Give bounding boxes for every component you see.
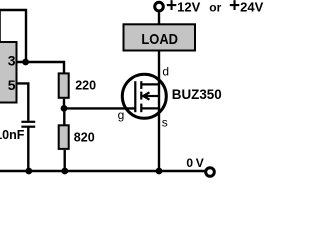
Q1 source stub (141, 107, 159, 109)
wire C1 to rail (27, 127, 29, 171)
Q1 drain stub (141, 83, 159, 85)
wire gate (64, 107, 136, 109)
terminal +V supply (155, 2, 164, 11)
IC U1 (partial, pins 3 and 5) (0, 42, 17, 103)
wire R2 bottom to rail (63, 150, 65, 171)
svg-text:or: or (209, 1, 221, 15)
wire feedback from top-left (0, 10, 26, 62)
wire left-edge stub (0, 10, 1, 41)
svg-text:10nF: 10nF (0, 128, 25, 142)
resistor R1 220 (59, 73, 69, 97)
transistor Q1 BUZ350 circle (122, 74, 166, 118)
svg-text:s: s (162, 115, 168, 129)
capacitor C1 top plate (21, 121, 35, 123)
capacitor C1 bottom plate (21, 126, 35, 128)
svg-text:g: g (118, 108, 125, 122)
wire pin 3 to R1 (17, 62, 64, 74)
node gate junction (61, 105, 68, 112)
Q1 channel bottom segment (140, 104, 142, 113)
svg-text:3: 3 (8, 53, 16, 69)
wire R1 bottom to gate node (63, 99, 65, 110)
load box (124, 24, 196, 50)
Q1 channel top segment (140, 81, 142, 89)
Q1 body arrow stub (144, 95, 159, 97)
svg-text:+12V: +12V (166, 0, 201, 17)
wire drain-source vertical (158, 51, 160, 172)
resistor R2 820 (59, 125, 69, 149)
node rail/R2 (61, 168, 68, 175)
svg-text:5: 5 (8, 77, 16, 93)
wire pin 5 to C1 (17, 83, 28, 120)
node rail/C1 (25, 168, 32, 175)
svg-text:0V: 0V (186, 156, 203, 170)
node junction pin3/feedback (22, 59, 29, 66)
svg-text:LOAD: LOAD (141, 31, 178, 48)
svg-text:d: d (162, 65, 169, 79)
Q1 arrowhead (143, 92, 149, 99)
wire gate node to R2 top (63, 108, 65, 126)
svg-text:820: 820 (74, 131, 95, 145)
Q1 channel middle segment (140, 92, 142, 100)
Q1 gate plate (134, 81, 136, 112)
terminal 0V (206, 168, 215, 177)
svg-text:BUZ350: BUZ350 (172, 87, 222, 102)
wire supply terminal to LOAD (158, 11, 160, 24)
svg-text:220: 220 (75, 79, 96, 93)
svg-text:+24V: +24V (229, 0, 264, 17)
rail 0V bottom (0, 170, 205, 173)
node rail/source (156, 168, 163, 175)
